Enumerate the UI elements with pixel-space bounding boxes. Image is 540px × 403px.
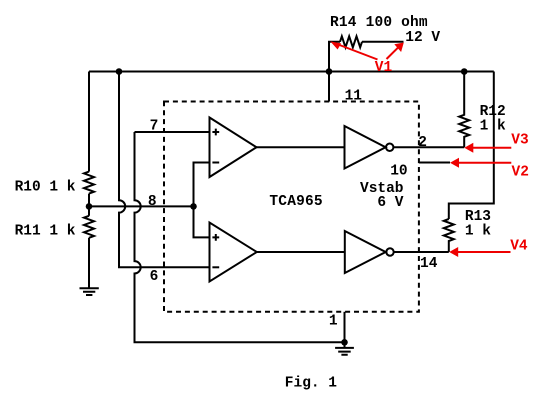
wire right vertical from bus to R13 — [449, 72, 494, 220]
svg-text:10: 10 — [390, 163, 407, 179]
dashed box TCA965 IC boundary — [164, 102, 419, 312]
wire node 8 line — [89, 205, 194, 207]
wire R11 to ground — [88, 238, 90, 288]
junction dot bus/R12 — [461, 68, 468, 75]
junction dot bus/R14-pin11 — [326, 68, 333, 75]
junction dot node 8 tee — [190, 203, 197, 210]
svg-text:TCA965: TCA965 — [269, 194, 322, 210]
wire pin 2 output to R12 — [393, 146, 464, 148]
wire top supply bus — [89, 71, 494, 73]
svg-text:14: 14 — [420, 256, 438, 272]
svg-text:V2: V2 — [512, 164, 529, 180]
wire pin7 net vertical with hops, bottom run to pin1 — [135, 132, 345, 342]
junction dot R10/R11 node 8 — [86, 203, 93, 210]
resistor R13 — [444, 219, 454, 252]
svg-text:6 V: 6 V — [377, 195, 403, 211]
svg-text:7: 7 — [150, 119, 159, 135]
svg-text:R10 1 k: R10 1 k — [15, 180, 76, 196]
svg-text:R11 1 k: R11 1 k — [15, 224, 76, 240]
svg-text:8: 8 — [148, 194, 157, 210]
minus mark lower — [212, 266, 219, 268]
V1 arrow to 12V terminal — [387, 47, 399, 59]
svg-text:1: 1 — [329, 313, 338, 329]
wire lower comparator output to buffer — [257, 251, 345, 253]
svg-text:12 V: 12 V — [405, 30, 440, 46]
wire pin 7 input — [135, 131, 210, 133]
resistor R11 — [84, 216, 94, 238]
wire second vertical from bus with hop over node8 line, elbow to pin 6 — [119, 72, 210, 268]
wire R14 left lead corner down to bus — [329, 42, 340, 72]
resistor R12 — [459, 72, 469, 148]
ground under R11 — [80, 288, 99, 295]
svg-text:1 k: 1 k — [465, 224, 491, 240]
svg-text:V1: V1 — [375, 60, 393, 76]
voltage probe V3 arrow at pin2/R12 — [471, 147, 511, 149]
wire node8 up to upper comparator minus — [194, 163, 210, 207]
svg-text:11: 11 — [345, 89, 363, 105]
ground at pin 1 — [335, 342, 354, 355]
svg-text:R13: R13 — [465, 209, 491, 225]
wire pin 10 stub — [419, 162, 450, 164]
minus mark upper — [212, 162, 219, 164]
wire pin 14 output to R13 — [394, 251, 449, 253]
wire node8 down to lower comparator plus — [194, 206, 210, 237]
op-amp upper comparator — [210, 118, 257, 178]
svg-text:V4: V4 — [510, 239, 528, 255]
junction dot pin1/ground — [341, 339, 348, 346]
svg-text:V3: V3 — [511, 132, 528, 148]
op-amp lower comparator — [210, 223, 257, 282]
voltage probe V2 arrow at pin10 — [457, 162, 512, 164]
svg-text:R14 100 ohm: R14 100 ohm — [330, 15, 428, 31]
plus mark upper — [212, 129, 219, 136]
junction dot bus/left vertical — [116, 68, 123, 75]
resistor R14 — [340, 36, 362, 47]
wire R14 right lead to 12V node — [362, 41, 404, 43]
svg-text:2: 2 — [418, 135, 427, 151]
wire pin 11 stub from bus — [328, 72, 330, 102]
buffer lower with inversion bubble — [345, 231, 386, 273]
wire R10 to R11 node — [88, 194, 90, 216]
V1 arrow to R14 left terminal — [337, 44, 378, 60]
wire pin 1 stub — [344, 312, 346, 343]
svg-text:6: 6 — [150, 269, 159, 285]
voltage probe V4 arrow at pin14/R13 — [456, 251, 511, 253]
resistor R10 — [84, 172, 94, 194]
wire upper comparator output to buffer — [257, 146, 345, 148]
wire left drop to R10 — [88, 72, 90, 172]
svg-text:Fig. 1: Fig. 1 — [285, 376, 338, 392]
plus mark lower — [212, 234, 219, 241]
buffer U upper with inversion bubble — [345, 126, 386, 169]
